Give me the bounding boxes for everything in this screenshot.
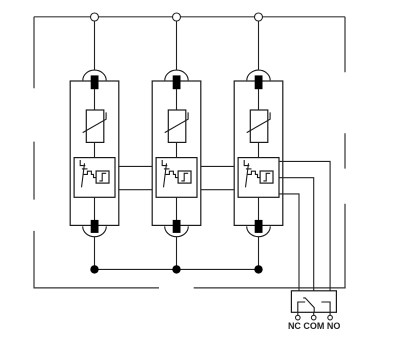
relay K1 remote signalling contact box	[291, 291, 336, 313]
terminal 2 (line input)	[173, 13, 181, 21]
monitor symbol 3 blade	[246, 163, 249, 187]
module 2 top plug contact	[173, 75, 181, 89]
wire module 2 to PE junction	[176, 237, 178, 266]
wire terminal 3 to module 3	[258, 21, 260, 70]
wire module 3 to PE junction	[258, 237, 260, 266]
wire monitor box 2 to bottom contact	[176, 197, 178, 220]
enclosure outline bottom edge (dashed)	[34, 287, 346, 289]
module 1 bottom plug contact	[91, 220, 99, 233]
monitor symbol 1 blade	[82, 163, 85, 187]
monitor symbol 3 indicator step glyph	[263, 173, 270, 181]
module 1 top plug contact	[91, 75, 99, 89]
varistor MOV1 diagonal stroke	[83, 112, 106, 132]
monitor symbol 3 cross tick	[246, 168, 252, 170]
wire terminal 2 to module 2	[176, 21, 178, 70]
PE junction module 3	[254, 265, 262, 273]
module 3 top plug socket arc	[247, 70, 270, 80]
wire varistor MOV3 to monitor box	[258, 142, 260, 157]
module 1 top plug socket arc	[83, 70, 106, 80]
monitoring bus lower, module 2 to module 3	[201, 189, 234, 191]
varistor MOV1 body	[86, 110, 104, 142]
monitor box 2 (thermal disconnector / status indicator)	[156, 158, 197, 198]
relay NC fixed contact	[298, 302, 305, 312]
monitor box 1 (thermal disconnector / status indicator)	[74, 158, 115, 198]
stub relay COM terminal	[313, 312, 315, 315]
relay terminal NO	[328, 315, 333, 320]
relay changeover blade (COM)	[303, 298, 314, 312]
PE junction module 1	[90, 265, 98, 273]
relay NO fixed contact	[321, 302, 330, 312]
varistor MOV2 diagonal stroke	[165, 112, 188, 132]
enclosure outline right edge (dashed)	[344, 17, 346, 289]
monitor symbol 2 indicator step glyph	[181, 173, 188, 181]
monitor symbol 2 step wave	[165, 171, 178, 177]
monitor symbol 1 step wave	[83, 171, 96, 177]
varistor MOV3 body	[250, 110, 267, 142]
terminal 1 (line input)	[91, 13, 99, 21]
wire varistor MOV1 to monitor box	[94, 142, 96, 157]
relay terminal NC	[296, 315, 301, 320]
signal wire NO (monitor box 3 to relay)	[279, 161, 330, 290]
module 2 body	[152, 81, 201, 225]
wire monitor box 3 to bottom contact	[258, 197, 260, 220]
varistor MOV3 diagonal stroke	[247, 112, 270, 132]
monitoring bus lower, module 1 to module 2	[119, 189, 152, 191]
module 3 bottom plug socket arc	[247, 226, 271, 236]
monitor symbol 3 step wave	[247, 171, 260, 177]
wire module 1 to PE junction	[94, 237, 96, 266]
monitor symbol 1 indicator step glyph	[99, 173, 106, 181]
monitor box 3 (thermal disconnector / status indicator)	[238, 158, 279, 198]
wire varistor MOV2 to monitor box	[176, 142, 178, 157]
wire monitor box 1 to bottom contact	[94, 197, 96, 220]
varistor MOV2 body	[168, 110, 186, 142]
module 2 bottom plug socket arc	[165, 226, 189, 236]
monitoring bus upper, module 2 to module 3	[201, 165, 234, 167]
monitor symbol 2 blade	[164, 163, 167, 187]
stub relay NO terminal	[329, 312, 331, 315]
monitor symbol 2 cross tick	[164, 168, 170, 170]
enclosure outline top edge	[34, 16, 345, 18]
signal wire COM (monitor box 3 to relay)	[279, 178, 314, 291]
relay terminal COM	[311, 315, 316, 320]
module 1 body	[70, 81, 119, 225]
wire contact to varistor MOV1	[94, 89, 96, 110]
module 2 bottom plug contact	[173, 220, 181, 233]
PE bus wire	[95, 268, 259, 270]
module 3 bottom plug contact	[255, 220, 263, 233]
monitor symbol 1 disconnect hook	[80, 160, 85, 166]
wire contact to varistor MOV3	[258, 89, 260, 110]
svg-text:NC COM NO: NC COM NO	[288, 321, 341, 331]
monitor symbol 3 indicator square	[260, 171, 273, 183]
monitor symbol 1 cross tick	[82, 168, 88, 170]
signal wire NC (monitor box 3 to relay)	[279, 194, 299, 291]
PE junction module 2	[172, 265, 180, 273]
monitor symbol 1 indicator square	[96, 171, 109, 183]
monitor symbol 3 disconnect hook	[244, 160, 249, 166]
module 1 bottom plug socket arc	[83, 226, 107, 236]
monitor symbol 2 disconnect hook	[162, 160, 167, 166]
module 3 top plug contact	[255, 75, 263, 89]
module 3 body	[234, 81, 283, 225]
monitor symbol 2 indicator square	[178, 171, 191, 183]
enclosure outline left edge (dashed)	[33, 17, 35, 289]
wire contact to varistor MOV2	[176, 89, 178, 110]
terminal 3 (line input)	[255, 13, 263, 21]
monitoring bus upper, module 1 to module 2	[119, 165, 152, 167]
stub relay NC terminal	[297, 312, 299, 315]
wire terminal 1 to module 1	[94, 21, 96, 70]
module 2 top plug socket arc	[165, 70, 188, 80]
